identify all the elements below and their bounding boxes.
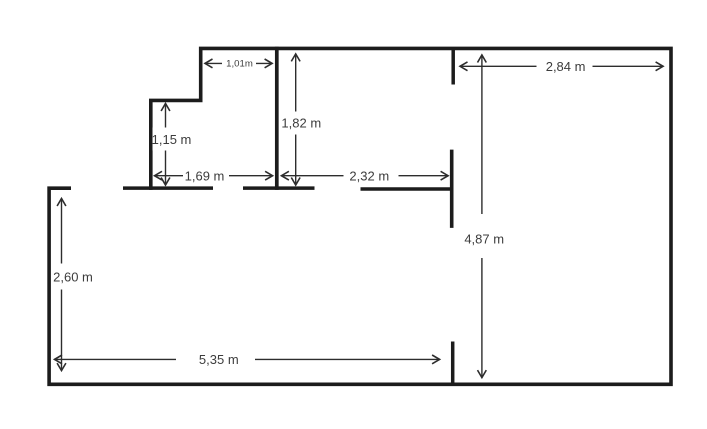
svg-text:2,32 m: 2,32 m: [349, 169, 389, 184]
outer wall outline (stub, left, bottom, right, top, step): [49, 48, 671, 384]
dimension 1,01m line: [205, 59, 272, 68]
dimension 1,82m label: [281, 112, 321, 135]
dimension 1,82m line: [291, 54, 300, 186]
dimension 2,60m label: [54, 264, 93, 290]
dimension 2,84m line: [460, 62, 664, 71]
dimension 1,01m label: [222, 56, 256, 72]
dimension 1,69m label: [183, 168, 229, 184]
svg-text:1,82 m: 1,82 m: [281, 115, 321, 130]
svg-text:2,84 m: 2,84 m: [546, 59, 586, 74]
interior wall segment B: [243, 186, 315, 190]
interior wall segment C: [361, 187, 453, 191]
dimension 2,84m label: [537, 58, 593, 74]
dimension 1,69m line: [154, 171, 272, 180]
svg-text:1,15 m: 1,15 m: [152, 132, 192, 147]
svg-text:2,60 m: 2,60 m: [53, 270, 93, 285]
svg-text:1,01m: 1,01m: [226, 59, 253, 70]
dimension 1,15m line: [161, 103, 170, 185]
dimension 2,32m label: [344, 168, 399, 184]
interior vertical wall (tall, x=277): [275, 47, 279, 190]
dimension 1,15m label: [153, 128, 192, 151]
svg-text:5,35 m: 5,35 m: [199, 352, 239, 367]
dimension 5,35m line: [54, 355, 440, 364]
top wall stub (x=453): [451, 48, 455, 84]
interior wall segment A: [123, 186, 213, 190]
dimension 5,35m label: [176, 351, 255, 368]
dimension 2,60m line: [57, 198, 66, 370]
dimension 2,32m line: [281, 171, 448, 180]
bottom wall stub (x=453): [451, 342, 455, 385]
dimension 4,87m line: [478, 55, 487, 378]
svg-text:1,69 m: 1,69 m: [185, 169, 225, 184]
svg-text:4,87 m: 4,87 m: [464, 232, 504, 247]
dimension 4,87m label: [465, 214, 505, 258]
interior vertical wall (middle, x=452): [450, 150, 454, 228]
